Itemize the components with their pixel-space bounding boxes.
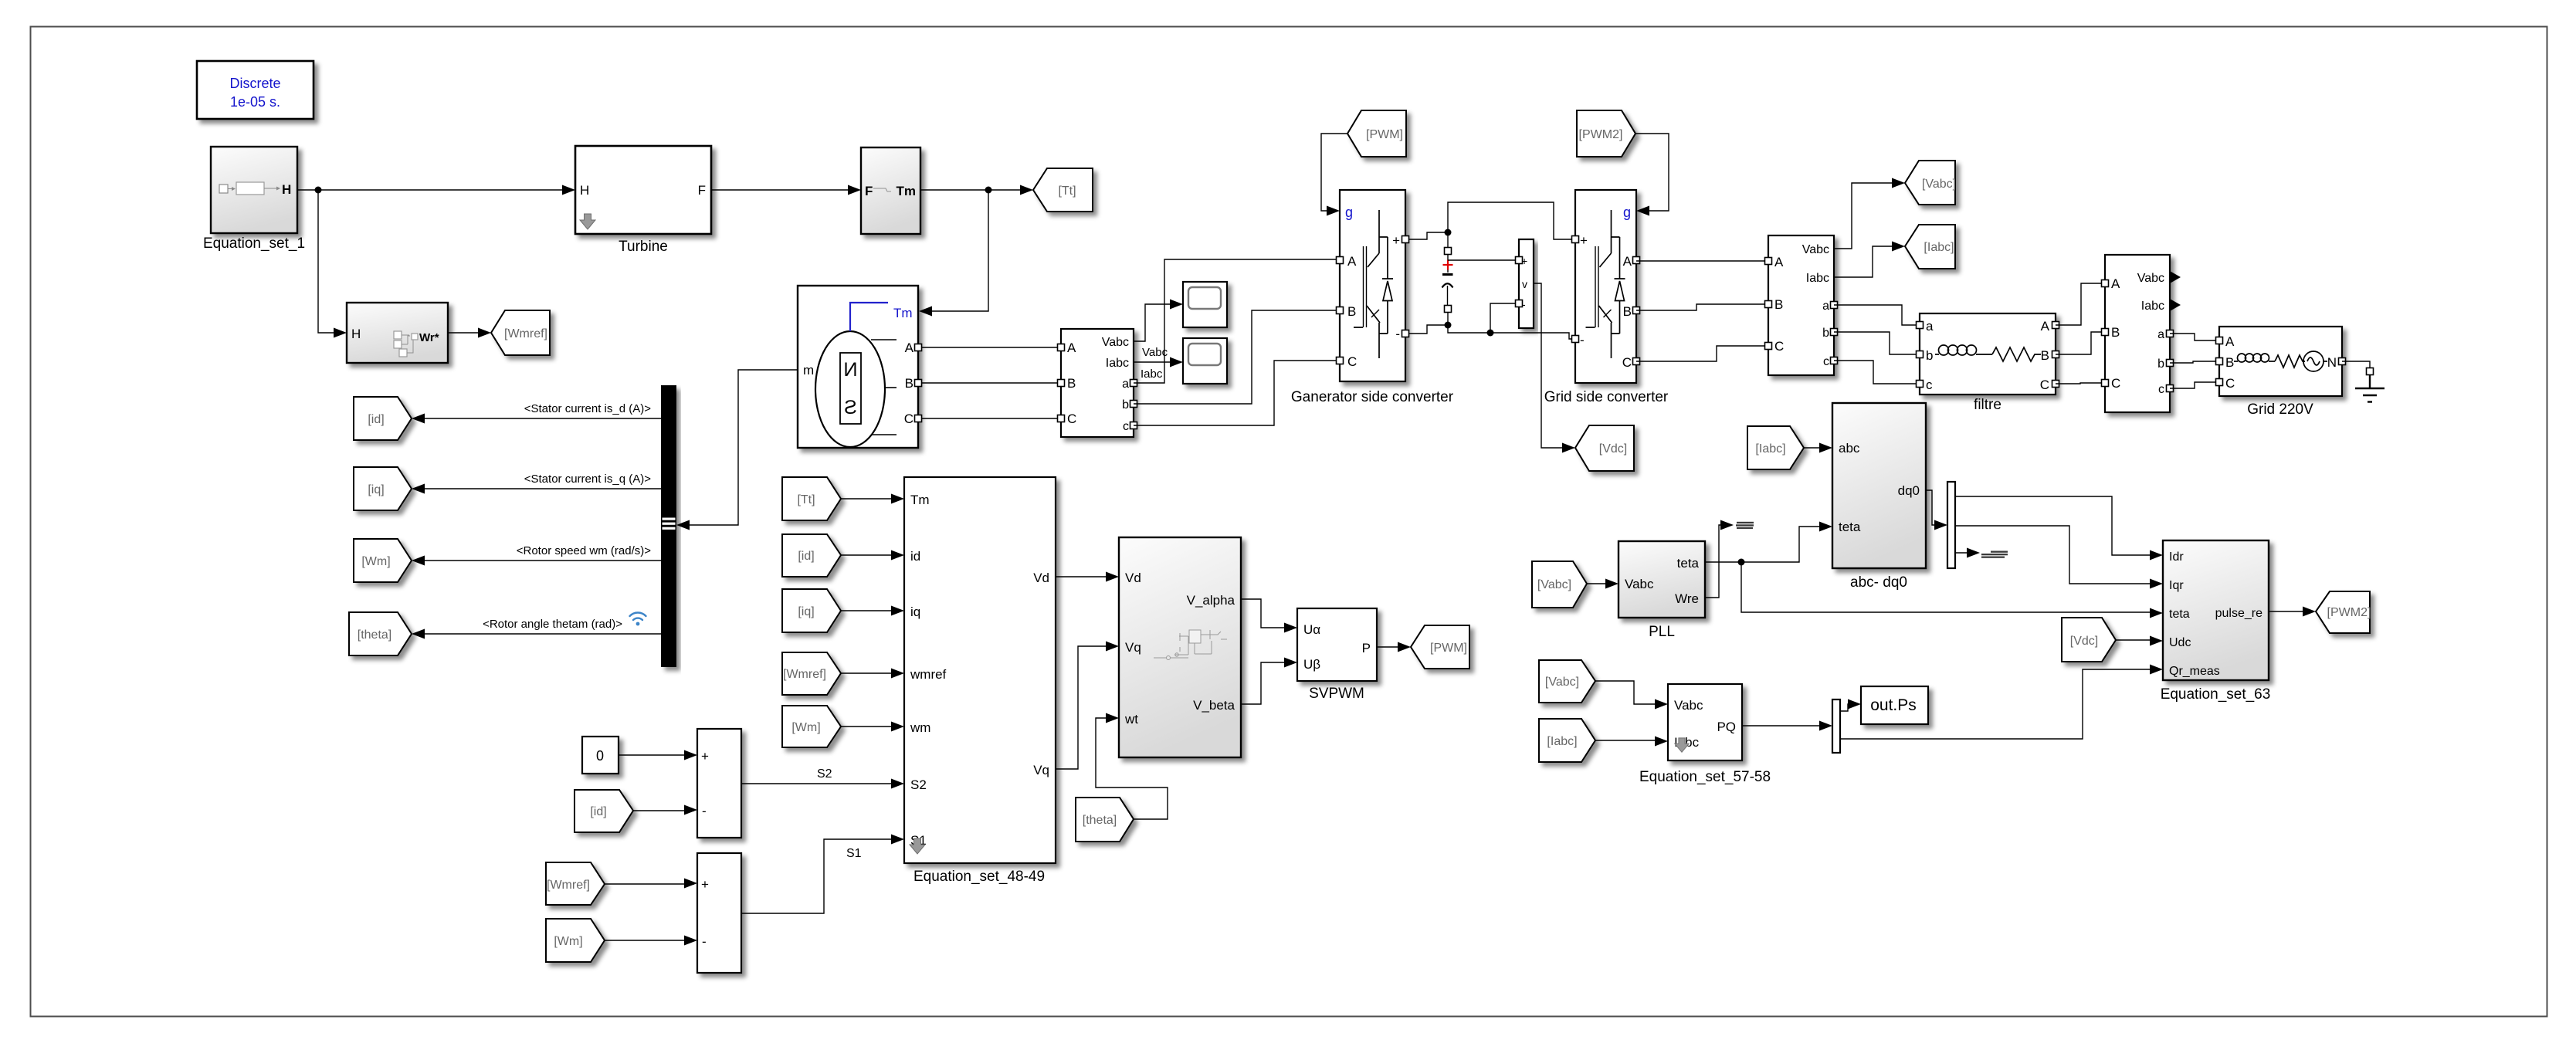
svg-text:[iq]: [iq] bbox=[368, 483, 384, 496]
svg-text:Iqr: Iqr bbox=[2169, 579, 2184, 592]
wire Equation_set_1 H to Turbine bbox=[297, 189, 572, 191]
svg-text:B: B bbox=[905, 376, 913, 391]
svg-text:C: C bbox=[1622, 355, 1632, 370]
svg-text:-: - bbox=[702, 934, 707, 949]
node junction after Equation_set_1 bbox=[315, 187, 322, 194]
svg-text:[Tt]: [Tt] bbox=[1058, 185, 1076, 198]
wireless logging icon bbox=[630, 612, 646, 625]
from tag [Wm] control bbox=[782, 706, 841, 747]
wire bus output rotor speed with label bbox=[424, 560, 661, 561]
wire P to [PWM] goto bbox=[1377, 646, 1408, 648]
measurement block stator V-I bbox=[1061, 329, 1134, 437]
svg-text:out.Ps: out.Ps bbox=[1870, 696, 1917, 714]
svg-text:wmref: wmref bbox=[910, 667, 947, 682]
svg-text:C: C bbox=[2225, 376, 2235, 391]
wire grid converter A to measurement2 A bbox=[1636, 260, 1768, 262]
from tag [Wm] sum bbox=[546, 919, 605, 962]
svg-text:Tm: Tm bbox=[910, 493, 930, 507]
svg-text:[Tt]: [Tt] bbox=[797, 493, 815, 506]
svg-text:[PWM2]: [PWM2] bbox=[2327, 606, 2371, 619]
svg-text:[Iabc]: [Iabc] bbox=[1924, 241, 1954, 254]
svg-text:Equation_set_1: Equation_set_1 bbox=[203, 235, 305, 252]
svg-text:+: + bbox=[701, 749, 709, 764]
svg-text:B: B bbox=[1774, 297, 1783, 312]
svg-text:dq0: dq0 bbox=[1898, 483, 1920, 498]
svg-text:abc: abc bbox=[1839, 441, 1860, 456]
svg-text:a: a bbox=[1822, 300, 1829, 313]
svg-text:Wr*: Wr* bbox=[419, 331, 439, 344]
svg-text:C: C bbox=[1347, 354, 1357, 369]
svg-text:Turbine: Turbine bbox=[619, 239, 668, 255]
ground symbol bbox=[2355, 374, 2384, 402]
svg-text:[PWM]: [PWM] bbox=[1366, 128, 1403, 141]
node junction DC minus 2 bbox=[1487, 330, 1494, 337]
svg-text:Tm: Tm bbox=[897, 184, 917, 198]
svg-text:PLL: PLL bbox=[1649, 624, 1675, 640]
wire PLL teta to abc-dq0 teta and Equation_set_63 bbox=[1705, 527, 2157, 612]
svg-text:N: N bbox=[2327, 355, 2337, 370]
wire measurement3 b to Grid B bbox=[2170, 361, 2219, 363]
wire [id] to sum1 minus bbox=[633, 810, 694, 811]
svg-text:C: C bbox=[904, 412, 913, 426]
grid side converter bbox=[1544, 190, 1669, 405]
svg-text:<Rotor speed wm (rad/s)>: <Rotor speed wm (rad/s)> bbox=[517, 544, 651, 557]
subsystem Equation_set_1 bbox=[203, 147, 305, 252]
svg-text:Equation_set_48-49: Equation_set_48-49 bbox=[913, 869, 1045, 885]
wire measurement2 a to filtre a bbox=[1834, 305, 1920, 325]
node junction Tm bbox=[985, 187, 992, 194]
wire measurement3 a to Grid A bbox=[2170, 334, 2219, 340]
svg-text:Uα: Uα bbox=[1303, 622, 1320, 637]
from tag [Iabc] dq0 bbox=[1747, 426, 1804, 469]
svg-text:[id]: [id] bbox=[368, 413, 384, 426]
svg-text:A: A bbox=[1774, 255, 1784, 269]
wire branch down to machine Tm input bbox=[922, 190, 988, 311]
svg-text:N: N bbox=[843, 359, 857, 381]
svg-text:c: c bbox=[1123, 420, 1129, 433]
svg-text:a: a bbox=[1926, 319, 1934, 334]
svg-text:wm: wm bbox=[910, 720, 930, 735]
node junction teta bbox=[1738, 559, 1745, 566]
svg-text:v: v bbox=[1522, 278, 1527, 290]
svg-text:wt: wt bbox=[1124, 712, 1138, 727]
svg-text:B: B bbox=[1347, 304, 1356, 319]
node junction DC plus bbox=[1445, 229, 1452, 236]
svg-text:H: H bbox=[282, 182, 291, 197]
svg-text:B: B bbox=[2225, 355, 2234, 370]
svg-text:c: c bbox=[2158, 383, 2164, 396]
from tag [Vabc] PQ bbox=[1539, 660, 1595, 703]
svg-text:[Wm]: [Wm] bbox=[361, 555, 390, 568]
wire measurement2 Iabc to [Iabc] bbox=[1834, 246, 1902, 277]
svg-text:F: F bbox=[865, 184, 873, 198]
svg-text:A: A bbox=[1347, 254, 1357, 269]
filtre RL block bbox=[1920, 313, 2056, 413]
svg-text:Vd: Vd bbox=[1125, 571, 1141, 585]
goto tag [Tt] bbox=[1033, 168, 1093, 212]
svg-text:id: id bbox=[910, 549, 920, 564]
svg-text:C: C bbox=[1774, 339, 1784, 354]
svg-text:Vabc: Vabc bbox=[1674, 698, 1703, 713]
svg-text:teta: teta bbox=[1677, 556, 1700, 571]
svg-text:S2: S2 bbox=[817, 767, 832, 781]
svg-text:[Wm]: [Wm] bbox=[554, 935, 582, 948]
svg-text:[iq]: [iq] bbox=[798, 605, 814, 618]
svg-text:S1: S1 bbox=[846, 847, 862, 860]
Grid 220V source block bbox=[2219, 327, 2342, 418]
wire Iabc to scope2 with label bbox=[1134, 361, 1180, 363]
svg-text:<Stator current is_d (A)>: <Stator current is_d (A)> bbox=[524, 402, 651, 415]
svg-text:C: C bbox=[2111, 376, 2120, 391]
generator side converter bbox=[1291, 190, 1454, 405]
subsystem Wr* speed reference bbox=[347, 303, 448, 363]
svg-text:[PWM2]: [PWM2] bbox=[1579, 128, 1623, 141]
wire demux out3 to terminator bbox=[1955, 552, 1969, 554]
svg-text:Equation_set_57-58: Equation_set_57-58 bbox=[1639, 769, 1771, 785]
from tag [Vabc] PLL bbox=[1532, 561, 1587, 608]
svg-text:[id]: [id] bbox=[590, 805, 606, 818]
machine PMSM block bbox=[798, 286, 918, 448]
subsystem Equation_set_48-49 bbox=[904, 477, 1056, 885]
svg-text:[Vabc]: [Vabc] bbox=[1545, 676, 1579, 689]
svg-text:<Rotor angle thetam (rad)>: <Rotor angle thetam (rad)> bbox=[483, 618, 622, 631]
svg-text:[Vdc]: [Vdc] bbox=[2070, 635, 2098, 648]
wire [Wmref] to sum2 plus bbox=[605, 883, 694, 885]
svg-text:[Vabc]: [Vabc] bbox=[1922, 178, 1956, 191]
wire bus output is_q with label bbox=[424, 488, 661, 489]
wire machine C to measurement C bbox=[918, 418, 1061, 419]
wire Tm output to [Tt] and machine bbox=[920, 189, 1030, 191]
svg-text:iq: iq bbox=[910, 605, 920, 619]
wire measurement3 c to Grid C bbox=[2170, 382, 2219, 388]
wire Vabc to scope1 with label bbox=[1134, 304, 1180, 341]
svg-text:Iabc: Iabc bbox=[1141, 367, 1163, 381]
svg-text:V_beta: V_beta bbox=[1193, 698, 1235, 713]
svg-text:Uβ: Uβ bbox=[1303, 657, 1320, 672]
svg-text:A: A bbox=[1623, 254, 1632, 269]
from tag [id] sum bbox=[575, 790, 633, 832]
svg-text:-: - bbox=[1395, 327, 1400, 341]
out.Ps block bbox=[1861, 686, 1928, 724]
svg-text:H: H bbox=[351, 327, 361, 341]
svg-text:Grid 220V: Grid 220V bbox=[2247, 401, 2313, 418]
svg-text:[Vdc]: [Vdc] bbox=[1599, 442, 1627, 456]
wire [Vabc] to Equation_set_57-58 bbox=[1595, 681, 1662, 704]
svg-text:[theta]: [theta] bbox=[358, 628, 391, 642]
svg-text:S: S bbox=[844, 397, 857, 418]
wire [Iabc] to Equation_set_57-58 bbox=[1595, 740, 1662, 741]
svg-text:B: B bbox=[1623, 304, 1632, 319]
wire filtre A to measurement3 A bbox=[2056, 283, 2105, 325]
goto tag [Iabc] grid bbox=[1905, 225, 1955, 269]
wire machine B to measurement B bbox=[918, 382, 1061, 384]
sum block S1 bbox=[697, 853, 741, 973]
svg-text:Grid side converter: Grid side converter bbox=[1544, 389, 1669, 405]
wire Turbine F to F-Tm block bbox=[711, 189, 858, 191]
goto tag [iq] left bbox=[354, 467, 412, 510]
svg-text:Iabc: Iabc bbox=[1106, 357, 1129, 370]
svg-text:A: A bbox=[1067, 340, 1076, 355]
wire capacitor bottom lead to minus rail bbox=[1408, 312, 1572, 339]
subsystem PLL bbox=[1618, 541, 1705, 640]
svg-text:Idr: Idr bbox=[2169, 550, 2184, 564]
svg-text:-: - bbox=[702, 804, 707, 818]
wire PLL Wre to terminator bbox=[1705, 525, 1724, 598]
svg-text:m: m bbox=[803, 363, 814, 378]
sum block S2 bbox=[697, 729, 741, 838]
wire PQ to demux2 bbox=[1742, 725, 1826, 727]
wire measurement a to converter A bbox=[1134, 259, 1340, 383]
svg-text:[theta]: [theta] bbox=[1083, 814, 1117, 827]
svg-text:Iabc: Iabc bbox=[2141, 300, 2164, 313]
svg-text:A: A bbox=[905, 340, 914, 355]
svg-text:<Stator current is_q (A)>: <Stator current is_q (A)> bbox=[524, 472, 651, 486]
wire filtre C to measurement3 C bbox=[2056, 383, 2105, 384]
svg-text:[Wm]: [Wm] bbox=[791, 721, 820, 734]
svg-text:B: B bbox=[2041, 348, 2049, 363]
from tag [Vdc] control bbox=[2062, 618, 2116, 662]
from tag [theta] control bbox=[1076, 798, 1134, 842]
svg-text:B: B bbox=[1067, 376, 1076, 391]
wire [PWM2] to grid converter g bbox=[1635, 134, 1669, 211]
subsystem Equation_set_63 bbox=[2161, 540, 2271, 703]
goto tag [PWM2] output bbox=[2316, 591, 2371, 633]
from tag [PWM] top bbox=[1347, 110, 1406, 157]
wire pulse_re to [PWM2] bbox=[2269, 611, 2313, 612]
goto tag [Vabc] grid bbox=[1905, 161, 1956, 205]
svg-text:Vabc: Vabc bbox=[2137, 272, 2164, 285]
svg-text:pulse_re: pulse_re bbox=[2215, 607, 2262, 620]
svg-text:b: b bbox=[1822, 327, 1829, 340]
wire measurement2 c to filtre c bbox=[1834, 361, 1920, 384]
svg-text:abc- dq0: abc- dq0 bbox=[1850, 574, 1907, 591]
capacitor DC link bbox=[1442, 254, 1453, 306]
terminator Wre bbox=[1736, 522, 1754, 529]
svg-text:+: + bbox=[701, 877, 709, 892]
svg-text:a: a bbox=[2157, 328, 2164, 341]
subsystem F to Tm converter bbox=[861, 147, 920, 234]
svg-text:[Vabc]: [Vabc] bbox=[1537, 578, 1571, 591]
svg-text:a: a bbox=[1122, 378, 1129, 391]
svg-text:[Iabc]: [Iabc] bbox=[1547, 735, 1577, 748]
wire demux out1 to Idr bbox=[1955, 496, 2157, 555]
svg-text:teta: teta bbox=[1839, 520, 1861, 534]
svg-text:B: B bbox=[2111, 325, 2120, 340]
wire bus output is_d with label bbox=[424, 418, 661, 419]
svg-text:[Wmref]: [Wmref] bbox=[504, 327, 547, 340]
svg-text:SVPWM: SVPWM bbox=[1309, 686, 1364, 702]
svg-text:Vd: Vd bbox=[1033, 571, 1049, 585]
wire voltage measurement to [Vdc] bbox=[1534, 283, 1572, 448]
svg-text:A: A bbox=[2041, 319, 2050, 334]
wire grid converter C to measurement2 C bbox=[1636, 346, 1768, 361]
svg-text:C: C bbox=[2040, 378, 2049, 392]
svg-text:C: C bbox=[1067, 412, 1076, 426]
svg-text:c: c bbox=[1926, 378, 1933, 392]
svg-text:H: H bbox=[580, 183, 589, 198]
svg-text:g: g bbox=[1623, 205, 1631, 220]
svg-text:A: A bbox=[2225, 334, 2235, 349]
svg-text:A: A bbox=[2111, 276, 2120, 291]
svg-text:1e-05 s.: 1e-05 s. bbox=[230, 94, 280, 110]
voltage measurement block bbox=[1519, 239, 1534, 328]
wire Wr* to [Wmref] bbox=[448, 332, 488, 334]
svg-text:0: 0 bbox=[596, 748, 604, 764]
svg-text:c: c bbox=[1823, 355, 1829, 368]
wire measurement c to converter C bbox=[1134, 361, 1340, 425]
from tag [PWM2] top bbox=[1577, 110, 1635, 157]
scope1 Vabc bbox=[1183, 282, 1227, 327]
wire machine m to bus selector bbox=[690, 370, 798, 525]
svg-text:filtre: filtre bbox=[1974, 397, 2001, 413]
bus selector (black bar) bbox=[661, 385, 676, 667]
goto tag [Wmref] bbox=[491, 310, 550, 355]
svg-text:Tm: Tm bbox=[893, 306, 913, 320]
wire filtre B to measurement3 B bbox=[2056, 332, 2105, 354]
svg-text:S2: S2 bbox=[910, 777, 927, 792]
wire [Vabc] to PLL bbox=[1587, 583, 1612, 584]
wire N to ground bbox=[2342, 361, 2370, 368]
svg-text:P: P bbox=[1362, 641, 1371, 655]
goto tag [PWM] output bbox=[1411, 625, 1469, 669]
goto tag [Vdc] bbox=[1575, 425, 1634, 471]
goto tag [theta] left bbox=[349, 612, 412, 655]
from tag [Wmref] sum bbox=[546, 862, 605, 905]
svg-text:Vabc: Vabc bbox=[1802, 243, 1829, 256]
scope2 Iabc bbox=[1183, 338, 1227, 384]
svg-text:Iabc: Iabc bbox=[1806, 272, 1829, 285]
wire [Wm] to sum2 minus bbox=[605, 940, 694, 941]
svg-text:Ganerator side converter: Ganerator side converter bbox=[1291, 389, 1454, 405]
measurement block 3 bbox=[2105, 255, 2181, 412]
node junction DC minus 1 bbox=[1445, 322, 1452, 329]
svg-text:Discrete: Discrete bbox=[229, 76, 280, 91]
svg-text:Vq: Vq bbox=[1125, 640, 1141, 655]
terminator demux bbox=[1981, 551, 2008, 558]
wire [PWM] to generator converter g bbox=[1321, 134, 1347, 211]
svg-text:Udc: Udc bbox=[2169, 636, 2191, 649]
wire branch down to Wr* subsystem bbox=[318, 190, 344, 333]
wire Vd to SVPWM Vd bbox=[1056, 576, 1113, 577]
wire measurement2 Vabc to [Vabc] bbox=[1834, 183, 1902, 249]
wire voltage measurement minus bbox=[1490, 303, 1516, 330]
svg-text:Qr_meas: Qr_meas bbox=[2169, 665, 2220, 678]
wire bus output rotor angle with label bbox=[424, 633, 661, 635]
wire demux2 to out.Ps bbox=[1840, 704, 1855, 711]
subsystem SVPWM modulator bbox=[1119, 537, 1241, 757]
wire 0 to sum1 plus bbox=[619, 754, 694, 756]
SVPWM small block bbox=[1297, 608, 1377, 702]
subsystem Turbine bbox=[575, 146, 711, 255]
svg-text:g: g bbox=[1345, 205, 1353, 220]
subsystem abc-dq0 bbox=[1832, 403, 1926, 591]
svg-text:b: b bbox=[2157, 357, 2164, 371]
svg-text:[Iabc]: [Iabc] bbox=[1755, 442, 1785, 456]
svg-text:Wre: Wre bbox=[1675, 591, 1699, 606]
wire demux2 to Qr_meas bbox=[1840, 669, 2157, 739]
svg-text:+: + bbox=[1392, 233, 1400, 248]
wire [Iabc] to abc-dq0 bbox=[1804, 447, 1826, 449]
wire measurement2 b to filtre b bbox=[1834, 332, 1920, 354]
from tag [Iabc] PQ bbox=[1539, 719, 1595, 762]
wire Vq to SVPWM Vq bbox=[1056, 646, 1113, 769]
svg-text:b: b bbox=[1122, 398, 1129, 412]
wire voltage measurement plus bbox=[1448, 259, 1516, 261]
from tag [Tt] control bbox=[782, 477, 841, 520]
wire V_alpha to SVPWM Ua bbox=[1241, 599, 1291, 628]
wire capacitor top lead bbox=[1447, 232, 1449, 248]
subsystem Equation_set_57-58 bbox=[1639, 684, 1771, 785]
svg-text:Equation_set_63: Equation_set_63 bbox=[2161, 686, 2271, 703]
goto tag [Wm] left bbox=[354, 539, 412, 582]
demux PQ bbox=[1832, 699, 1840, 753]
wire [Vdc] to Udc bbox=[2116, 639, 2157, 641]
from tag [Wmref] control bbox=[782, 652, 841, 695]
svg-text:+: + bbox=[1580, 233, 1588, 248]
svg-text:Vabc: Vabc bbox=[1625, 577, 1654, 591]
wire DC plus rail bbox=[1408, 202, 1572, 239]
annotation Discrete 1e-05 s. bbox=[197, 61, 314, 119]
svg-text:[id]: [id] bbox=[798, 550, 814, 563]
wire sum1 to S2 input with label bbox=[741, 783, 901, 784]
wire machine A to measurement A bbox=[918, 347, 1061, 348]
demux currents bbox=[1947, 482, 1955, 568]
wire grid converter B to measurement2 B bbox=[1636, 304, 1768, 310]
svg-text:F: F bbox=[698, 183, 706, 198]
svg-text:[Wmref]: [Wmref] bbox=[783, 668, 826, 681]
wire [theta] to SVPWM wt bbox=[1096, 718, 1168, 819]
svg-text:[PWM]: [PWM] bbox=[1430, 642, 1467, 655]
svg-text:PQ: PQ bbox=[1717, 720, 1736, 734]
svg-text:[Wmref]: [Wmref] bbox=[547, 879, 590, 892]
svg-text:b: b bbox=[1926, 348, 1933, 363]
svg-text:-: - bbox=[1580, 333, 1585, 347]
wire measurement b to converter B bbox=[1134, 310, 1340, 404]
from tag [iq] control bbox=[782, 589, 841, 632]
svg-text:Vq: Vq bbox=[1033, 763, 1049, 777]
from tag [id] control bbox=[782, 534, 841, 577]
machine phase port squares bbox=[915, 344, 922, 351]
svg-text:V_alpha: V_alpha bbox=[1187, 593, 1235, 608]
wire demux out2 to Iqr bbox=[1955, 526, 2157, 584]
measurement block 2 grid V-I bbox=[1768, 235, 1834, 375]
goto tag [id] left bbox=[354, 397, 412, 440]
wire sum2 to S1 input with label bbox=[741, 839, 901, 913]
svg-text:teta: teta bbox=[2169, 608, 2190, 621]
constant 0 block bbox=[582, 737, 619, 774]
wire V_beta to SVPWM Ub bbox=[1241, 662, 1291, 704]
wire dq0 to demux bbox=[1926, 490, 1941, 525]
svg-text:Vabc: Vabc bbox=[1102, 336, 1129, 349]
